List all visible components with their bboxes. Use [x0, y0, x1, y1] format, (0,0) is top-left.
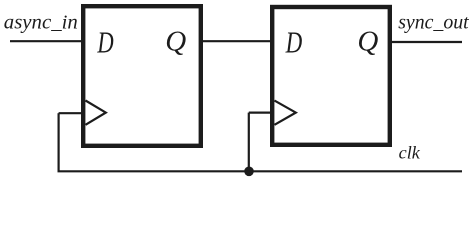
svg-text:D: D	[97, 25, 114, 60]
svg-text:Q: Q	[357, 26, 378, 58]
svg-text:async_in: async_in	[4, 11, 78, 33]
svg-text:Q: Q	[165, 26, 186, 58]
svg-text:D: D	[285, 25, 302, 60]
svg-text:sync_out: sync_out	[398, 12, 469, 34]
svg-text:clk: clk	[399, 143, 421, 163]
